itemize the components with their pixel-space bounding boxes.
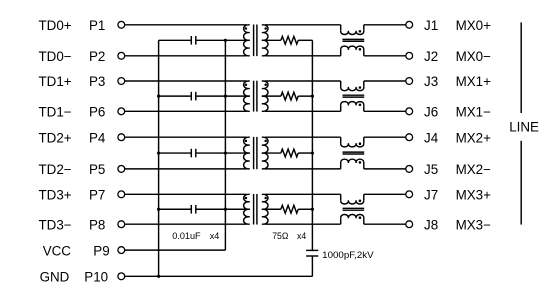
svg-text:J2: J2: [424, 49, 438, 64]
svg-text:TD2−: TD2−: [39, 162, 72, 177]
svg-text:MX1−: MX1−: [456, 105, 492, 120]
svg-text:MX0−: MX0−: [456, 49, 492, 64]
svg-text:J3: J3: [424, 74, 438, 89]
svg-text:P2: P2: [89, 49, 105, 64]
svg-text:TD1+: TD1+: [39, 74, 72, 89]
svg-text:TD1−: TD1−: [39, 105, 72, 120]
svg-text:VCC: VCC: [43, 243, 72, 258]
svg-text:J7: J7: [424, 188, 438, 203]
svg-text:TD3−: TD3−: [39, 217, 72, 232]
svg-text:1000pF,2kV: 1000pF,2kV: [322, 250, 374, 260]
svg-text:0.01uF x4: 0.01uF x4: [172, 231, 219, 241]
svg-text:TD0+: TD0+: [39, 18, 72, 33]
svg-text:P6: P6: [89, 105, 105, 120]
svg-text:P3: P3: [89, 74, 105, 89]
svg-text:MX3−: MX3−: [456, 217, 492, 232]
svg-text:GND: GND: [40, 270, 70, 285]
svg-text:MX1+: MX1+: [456, 74, 492, 89]
svg-text:P8: P8: [89, 217, 105, 232]
svg-text:TD2+: TD2+: [39, 130, 72, 145]
svg-text:MX2−: MX2−: [456, 162, 492, 177]
svg-text:J5: J5: [424, 162, 438, 177]
svg-text:75Ω x4: 75Ω x4: [272, 231, 306, 241]
svg-text:MX3+: MX3+: [456, 188, 492, 203]
svg-text:J4: J4: [424, 130, 439, 145]
svg-text:TD3+: TD3+: [39, 188, 72, 203]
svg-text:J8: J8: [424, 217, 438, 232]
svg-text:P1: P1: [89, 18, 105, 33]
svg-text:P4: P4: [89, 130, 106, 145]
svg-text:MX0+: MX0+: [456, 18, 492, 33]
svg-text:TD0−: TD0−: [39, 49, 72, 64]
svg-text:MX2+: MX2+: [456, 130, 492, 145]
svg-text:P9: P9: [93, 243, 109, 258]
svg-text:P10: P10: [84, 270, 108, 285]
svg-text:P7: P7: [89, 188, 105, 203]
svg-text:P5: P5: [89, 162, 105, 177]
svg-text:J1: J1: [424, 18, 438, 33]
svg-text:LINE: LINE: [509, 120, 539, 135]
svg-text:J6: J6: [424, 105, 438, 120]
